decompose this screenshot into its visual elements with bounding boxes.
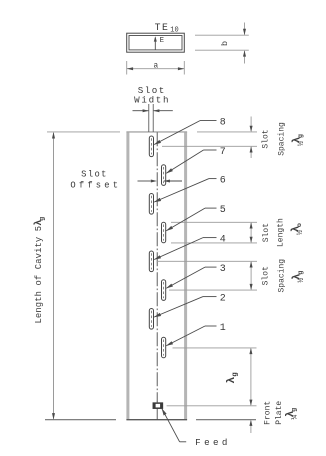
slot 2 [149, 309, 153, 330]
Slot Offset label [70, 170, 121, 191]
svg-text:Slot: Slot [261, 266, 270, 285]
svg-text:Offset: Offset [70, 180, 121, 190]
cavity right wall [184, 132, 187, 420]
svg-text:1: 1 [220, 323, 226, 334]
feed symbol [153, 401, 163, 409]
svg-text:Plate: Plate [275, 401, 284, 425]
λg label [226, 372, 240, 384]
svg-text:Width: Width [134, 94, 170, 105]
Front Plate ¼λg label [264, 401, 300, 425]
E label [160, 37, 165, 45]
λg dimension extension lines [167, 348, 257, 406]
b label [220, 41, 230, 46]
slot number 4 [220, 234, 226, 245]
svg-text:2: 2 [220, 293, 226, 304]
svg-text:Spacing: Spacing [277, 259, 286, 293]
feed leader [162, 408, 187, 442]
length of cavity extension line top [47, 131, 120, 133]
slot 6 [149, 194, 153, 215]
svg-text:Slot: Slot [262, 223, 271, 242]
slot number 2 [220, 293, 226, 304]
svg-text:4: 4 [220, 234, 226, 245]
leader to slot 7 [166, 150, 217, 174]
front plate line under cavity [126, 419, 187, 421]
svg-text:6: 6 [220, 175, 226, 186]
slot number 1 [220, 323, 226, 334]
waveguide cross-section rectangle [127, 33, 185, 52]
leader to slot 4 [154, 238, 217, 260]
slot 5 [162, 222, 166, 243]
leader to slot 5 [166, 208, 217, 231]
Slot Spacing ½λg label (lower) [261, 259, 306, 293]
slot spacing dimension (lower) arrows [250, 261, 253, 290]
centerline of waveguide [156, 132, 158, 419]
slot width arrows [133, 109, 173, 112]
svg-text:8: 8 [220, 117, 226, 128]
waveguide cross-section label TE10 [155, 22, 179, 35]
slot offset arrows [138, 180, 183, 183]
Length of Cavity 5λg label [33, 217, 46, 324]
svg-text:3: 3 [220, 264, 226, 275]
leader to slot 6 [154, 179, 217, 203]
slot 8 [149, 136, 153, 157]
svg-text:7: 7 [220, 147, 226, 158]
svg-text:a: a [153, 62, 158, 70]
front plate dimension arrow [249, 420, 252, 433]
dimension b arrows [243, 23, 246, 64]
slot spacing dimension (top) arrows [250, 117, 253, 159]
slot spacing dimension (lower) extension lines [157, 261, 258, 290]
slot number 3 [220, 264, 226, 275]
length of cavity extension line bottom [45, 419, 116, 421]
svg-text:TE: TE [155, 22, 170, 33]
cavity top edge [126, 131, 187, 133]
leader to slot 3 [166, 267, 217, 288]
Slot Length ½λo label [262, 218, 305, 247]
length of cavity dimension line [52, 132, 55, 420]
svg-text:Slot: Slot [81, 170, 108, 180]
svg-text:Slot: Slot [261, 129, 270, 148]
svg-text:Spacing: Spacing [277, 122, 286, 156]
slot length extension lines [171, 222, 257, 243]
slot number 5 [220, 205, 226, 216]
svg-text:Feed: Feed [195, 437, 231, 448]
cavity left wall [126, 132, 129, 420]
slot length dimension arrows [250, 222, 253, 243]
leader to slot 1 [166, 326, 217, 346]
dimension b extension lines [195, 35, 249, 50]
leader to slot 8 [154, 121, 217, 145]
Slot Width label [134, 85, 170, 105]
slot 3 [162, 280, 166, 301]
slot number 6 [220, 175, 226, 186]
front plate line right segment [196, 419, 256, 421]
svg-text:b: b [220, 41, 230, 46]
slot 7 [162, 165, 166, 186]
slot spacing dimension (top) extension lines [162, 132, 257, 146]
svg-text:Length: Length [277, 218, 286, 247]
E-field arrow [154, 36, 157, 50]
slot number 8 [220, 117, 226, 128]
λg dimension arrows [249, 348, 252, 406]
slot 4 [149, 251, 153, 272]
svg-text:E: E [160, 37, 165, 45]
dimension a [127, 61, 185, 75]
slot number 7 [220, 147, 226, 158]
svg-text:Front: Front [264, 401, 273, 425]
slot 1 [162, 337, 166, 358]
Slot Spacing ½λg label (top) [261, 122, 306, 156]
slot width extension lines [149, 104, 153, 132]
leader to slot 2 [154, 297, 217, 318]
Feed label [195, 437, 231, 448]
svg-text:5: 5 [220, 205, 226, 216]
